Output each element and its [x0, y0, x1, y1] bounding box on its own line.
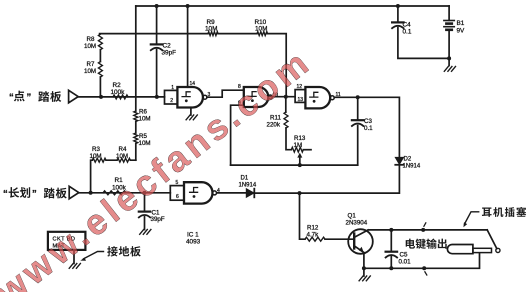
svg-text:R8: R8: [87, 36, 95, 43]
svg-text:10M: 10M: [139, 116, 151, 123]
svg-text:D2: D2: [404, 157, 412, 163]
node bottom tap junction: [422, 266, 427, 275]
op-amp U1D 4093 NAND gate 4: [184, 182, 220, 203]
wire D2 to keying line: [255, 165, 400, 193]
wire R11 to R13: [286, 128, 291, 150]
svg-text:10M: 10M: [255, 25, 267, 32]
label ground plate: [107, 246, 141, 256]
node collector tap junction: [421, 223, 426, 232]
resistor R12 4.7k: [305, 225, 325, 242]
wire C1 branch: [144, 193, 146, 230]
svg-text:10M: 10M: [116, 153, 128, 160]
leader ground plate arrow: [80, 252, 103, 261]
svg-text:10M: 10M: [90, 153, 102, 160]
node bottom-C5 junction: [389, 266, 393, 270]
svg-text:”: ”: [32, 189, 37, 200]
node gate2 output junction: [284, 95, 288, 99]
resistor R2 100k: [111, 82, 129, 99]
node dot-line R7 junction: [99, 95, 103, 99]
node rail-pin14 junction: [186, 4, 190, 8]
ground plate box CKT BD MAT: [48, 232, 86, 250]
potentiometer R13 1M: [291, 135, 311, 152]
label IC1 4093: [186, 232, 201, 246]
wire R5 to R3R4 row: [135, 144, 137, 161]
wire dash to R3R4 row: [91, 160, 136, 193]
svg-text:2N3904: 2N3904: [346, 220, 368, 227]
transistor Q1 2N3904: [346, 213, 373, 254]
wire gate2 output: [271, 96, 296, 98]
resistor R7 10M: [84, 61, 102, 77]
diode D2 1N914: [395, 157, 421, 170]
svg-text:R4: R4: [119, 146, 127, 153]
svg-text:100k: 100k: [111, 89, 126, 96]
svg-text:R5: R5: [139, 133, 147, 140]
wire plug tip lead: [487, 230, 497, 249]
headphone plug body: [447, 244, 491, 253]
svg-text:39pF: 39pF: [151, 216, 165, 223]
node wiper-feedback junction: [298, 163, 302, 167]
svg-text:39pF: 39pF: [162, 50, 177, 57]
wire C4 branch from rail: [398, 6, 449, 58]
op-amp U1C input tie box (pins 12,13): [295, 84, 305, 103]
wire gate4 output: [217, 192, 247, 194]
wire gate2 pin9 feedback drop: [231, 105, 244, 165]
capacitor C2 39pF: [151, 43, 176, 57]
resistor R9 10M: [205, 19, 218, 36]
svg-text:0.1: 0.1: [403, 29, 412, 36]
wire bottom return line: [364, 254, 480, 268]
resistor R10 10M: [255, 19, 268, 36]
svg-text:14: 14: [190, 81, 196, 87]
node rail-C4 junction: [396, 4, 400, 8]
op-amp U1A input tie box (pins 1,2): [165, 85, 178, 104]
wire C5 branch: [390, 230, 392, 268]
svg-text:“: “: [9, 92, 14, 103]
resistor R4 10M: [116, 146, 130, 162]
pedal input dash-terminal triangle: [69, 186, 79, 199]
ground plate ground: [69, 264, 80, 269]
wire gate1 out to gate2 pin8: [207, 90, 244, 97]
capacitor C5 0.01: [386, 252, 412, 266]
op-amp U1B 4093 NAND gate 2: [238, 84, 278, 107]
svg-text:R13: R13: [294, 135, 306, 142]
resistor R1 100k: [103, 177, 127, 195]
label headphone plug: [482, 207, 526, 217]
ground battery: [444, 67, 455, 72]
wire ground plate stub: [73, 250, 75, 264]
label key output: [406, 239, 447, 249]
svg-text:1: 1: [171, 85, 174, 91]
svg-text:C4: C4: [403, 22, 412, 29]
svg-text:C3: C3: [364, 118, 372, 125]
svg-text:10M: 10M: [205, 25, 217, 32]
resistor R6 10M: [134, 109, 151, 123]
svg-text:0.1: 0.1: [364, 125, 373, 132]
svg-text:R7: R7: [87, 61, 95, 68]
diode D1 1N914: [239, 176, 257, 198]
leader headphone plug arrow: [463, 212, 478, 227]
node rail-C2 junction: [155, 4, 159, 8]
wire 10M bias row y34: [100, 34, 287, 97]
resistor R8 10M: [84, 34, 102, 50]
wire dash input line: [79, 192, 171, 194]
node dash-line R3 junction: [89, 191, 93, 195]
capacitor C3 0.1: [352, 118, 373, 132]
svg-text:“: “: [3, 189, 8, 200]
svg-text:IC 1: IC 1: [187, 232, 199, 239]
wire pin14 supply drop: [187, 6, 189, 87]
svg-text:4.7k: 4.7k: [307, 231, 320, 238]
pedal input dot-terminal triangle: [69, 90, 79, 103]
svg-text:0.01: 0.01: [399, 259, 412, 266]
wire collector output line: [368, 229, 487, 231]
label dot pedal: [9, 91, 61, 103]
svg-text:1N914: 1N914: [239, 183, 257, 189]
svg-text:2: 2: [170, 98, 173, 104]
op-amp U1C 4093 NAND gate 3: [305, 87, 341, 108]
node battery-C4 return junction: [447, 56, 451, 60]
svg-text:1N914: 1N914: [403, 164, 421, 170]
node emitter-bottom junction: [362, 266, 366, 270]
wire C2 branch from rail: [156, 6, 158, 97]
wire dot input line: [78, 96, 164, 98]
wire R7 to dot input line: [99, 77, 101, 97]
wire C3 branch: [357, 97, 359, 165]
svg-text:10M: 10M: [139, 140, 151, 147]
svg-text:R11: R11: [270, 115, 281, 122]
wire V+ top rail: [136, 5, 449, 7]
op-amp U1D input tie box (pins 5,6): [170, 180, 184, 200]
wire gate1 pin7 stub: [190, 108, 192, 116]
wire base drop: [300, 193, 355, 239]
node dot-line C2 junction: [155, 95, 159, 99]
resistor R11 220k: [267, 97, 289, 129]
svg-text:C5: C5: [400, 252, 408, 259]
wire gate3 output to D2: [334, 97, 399, 157]
wire emitter drop: [363, 253, 365, 276]
svg-text:www.elecfans.com: www.elecfans.com: [0, 40, 319, 292]
node collector-C5 junction: [389, 228, 393, 232]
capacitor C1 39pF: [139, 209, 165, 223]
ground gate1 pin7: [186, 115, 197, 120]
svg-text:B1: B1: [457, 20, 465, 27]
node dash-line C1 junction: [143, 191, 147, 195]
svg-text:”: ”: [27, 92, 32, 103]
resistor R3 10M: [90, 146, 107, 162]
plug tip terminal: [496, 248, 500, 252]
svg-text:220k: 220k: [267, 122, 281, 129]
wire oscillator feedback line: [231, 164, 358, 166]
node keying line junction: [298, 191, 302, 195]
wire left long vertical (rail to R6 chain): [135, 6, 137, 111]
svg-text:Q1: Q1: [348, 213, 357, 220]
wire battery drop: [448, 6, 450, 66]
capacitor C4 0.1: [392, 22, 412, 36]
wire R13 wiper arm: [297, 153, 302, 166]
ground C1: [140, 230, 151, 235]
svg-text:10M: 10M: [84, 68, 96, 75]
ground Q1 emitter: [359, 276, 370, 281]
watermark www.elecfans.com: [0, 40, 319, 297]
wire R8-R7 link: [99, 50, 101, 62]
svg-text:13: 13: [298, 97, 304, 103]
svg-text:D1: D1: [241, 176, 249, 182]
svg-text:R2: R2: [113, 82, 122, 89]
svg-text:6: 6: [176, 194, 179, 200]
battery B1 9V: [444, 20, 465, 35]
svg-text:1M: 1M: [294, 142, 303, 149]
svg-text:R3: R3: [92, 146, 100, 153]
svg-text:C2: C2: [163, 43, 172, 50]
svg-text:R6: R6: [139, 109, 147, 116]
op-amp U1A 4093 NAND gate 1: [177, 81, 210, 108]
svg-text:10M: 10M: [84, 43, 96, 50]
label dash pedal: [3, 187, 67, 199]
wire R6-R5 link: [135, 122, 137, 134]
svg-text:4093: 4093: [186, 239, 201, 246]
node gate3 out C3 junction: [356, 95, 360, 99]
resistor R5 10M: [134, 133, 151, 147]
svg-text:9V: 9V: [457, 28, 466, 35]
